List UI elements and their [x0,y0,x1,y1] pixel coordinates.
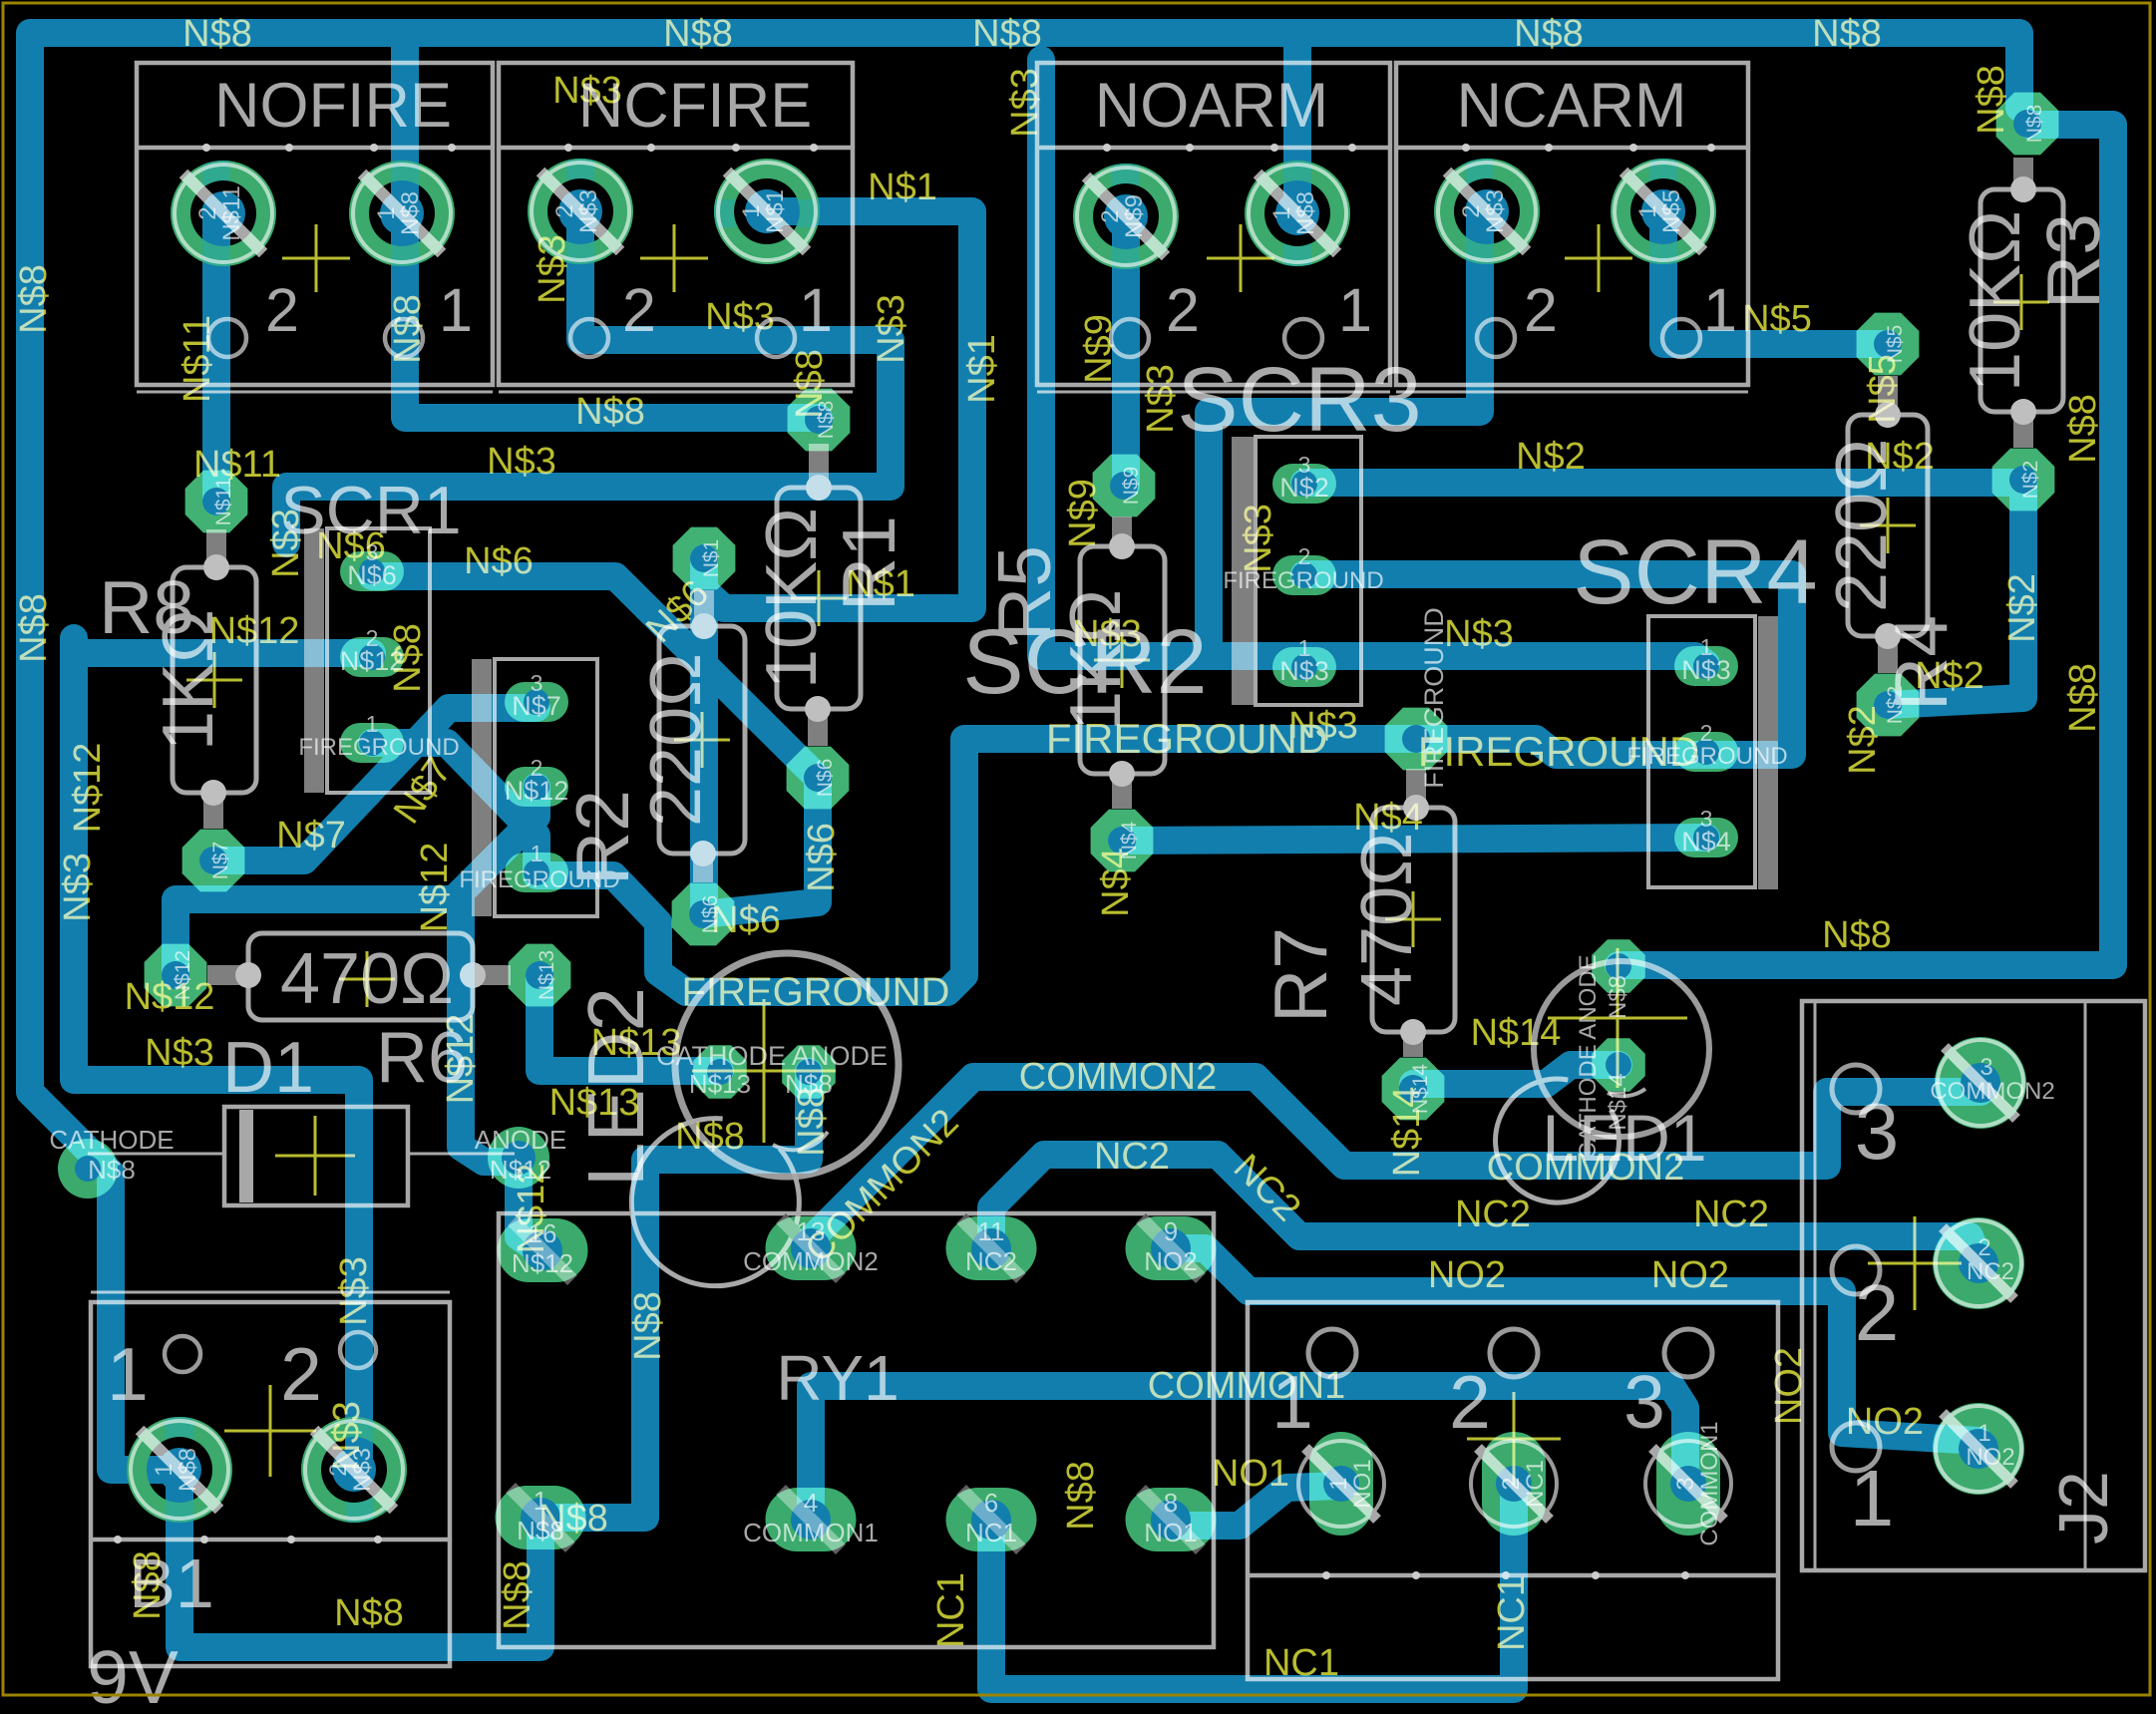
svg-text:3: 3 [1855,1087,1900,1176]
svg-text:N$11: N$11 [193,444,281,486]
svg-text:2: 2 [194,206,221,219]
svg-text:RY1: RY1 [776,1342,898,1414]
svg-text:1: 1 [439,276,473,344]
svg-text:N$8: N$8 [575,391,645,433]
svg-text:N$5: N$5 [1742,298,1812,340]
svg-text:2: 2 [1166,276,1200,344]
svg-text:N$9: N$9 [1120,467,1143,506]
svg-text:N$8: N$8 [397,191,424,235]
svg-text:N$8: N$8 [791,1087,833,1157]
svg-text:9V: 9V [87,1635,179,1714]
svg-text:N$3: N$3 [1681,655,1731,685]
svg-text:N$2: N$2 [1279,473,1329,503]
svg-text:COMMON1: COMMON1 [743,1518,879,1547]
svg-text:1: 1 [1325,1477,1352,1490]
svg-text:SCR4: SCR4 [1573,521,1817,623]
svg-text:NC2: NC2 [1094,1136,1170,1178]
svg-text:NO2: NO2 [1144,1246,1197,1276]
svg-text:ANODE: ANODE [1575,954,1602,1039]
svg-text:N$12: N$12 [440,1014,482,1105]
svg-text:N$3: N$3 [57,853,99,922]
svg-text:2: 2 [1498,1477,1525,1490]
svg-text:N$9: N$9 [1062,479,1104,548]
svg-text:N$2: N$2 [2019,461,2042,500]
svg-text:2: 2 [1097,209,1124,222]
svg-text:N$8: N$8 [2023,105,2046,144]
svg-text:SCR3: SCR3 [1177,349,1421,451]
svg-text:NO2: NO2 [1846,1401,1924,1443]
svg-text:N$1: N$1 [700,539,723,578]
svg-text:N$2: N$2 [1842,705,1884,775]
svg-text:N$9: N$9 [1121,194,1148,238]
svg-text:N$14: N$14 [1386,1087,1428,1178]
svg-text:NO2: NO2 [1768,1347,1810,1425]
svg-text:N$4: N$4 [1095,848,1137,917]
svg-text:N$8: N$8 [1812,13,1882,55]
svg-text:N$8: N$8 [539,1498,608,1540]
svg-text:NOFIRE: NOFIRE [214,71,452,141]
svg-text:N$8: N$8 [497,1560,539,1630]
svg-text:N$2: N$2 [1865,436,1935,478]
svg-text:2: 2 [1855,1268,1900,1357]
svg-text:N$8: N$8 [789,349,831,419]
svg-text:N$2: N$2 [1884,686,1907,725]
svg-text:N$12: N$12 [67,743,109,834]
svg-text:1: 1 [1338,276,1372,344]
svg-text:COMMON1: COMMON1 [1148,1365,1345,1407]
svg-text:N$12: N$12 [414,843,456,933]
svg-text:N$3: N$3 [1140,364,1182,434]
svg-text:N$3: N$3 [575,189,602,233]
svg-text:N$2: N$2 [1915,655,1984,697]
svg-text:2: 2 [1298,543,1311,569]
svg-text:N$8: N$8 [13,264,55,334]
svg-text:N$8: N$8 [127,1550,169,1620]
svg-text:N$8: N$8 [675,1116,745,1158]
svg-text:NC2: NC2 [1455,1194,1531,1235]
svg-text:N$3: N$3 [1444,613,1514,655]
svg-text:2: 2 [1449,1360,1491,1444]
svg-text:NC1: NC1 [930,1572,972,1648]
svg-text:1: 1 [1703,276,1737,344]
svg-text:FIREGROUND: FIREGROUND [298,734,459,761]
svg-text:N$8: N$8 [663,13,733,55]
svg-text:N$6: N$6 [711,899,781,941]
svg-text:N$3: N$3 [326,1401,368,1471]
svg-text:N$3: N$3 [532,234,573,304]
svg-text:NCARM: NCARM [1457,71,1687,141]
svg-text:FIREGROUND: FIREGROUND [682,970,950,1014]
svg-text:1: 1 [1634,204,1661,217]
svg-text:1: 1 [1977,1420,1990,1447]
svg-text:N$1: N$1 [846,563,915,605]
svg-text:NC1: NC1 [1263,1642,1339,1684]
svg-text:R7: R7 [1258,927,1342,1023]
svg-text:2: 2 [1458,204,1485,217]
svg-text:4: 4 [804,1488,818,1518]
svg-text:N$12: N$12 [505,776,569,806]
svg-text:3: 3 [1623,1360,1665,1444]
svg-text:N$3: N$3 [552,70,622,112]
svg-text:N$8: N$8 [1514,13,1584,55]
svg-text:N$6: N$6 [316,525,386,567]
svg-text:NC2: NC2 [1693,1194,1769,1235]
svg-text:N$13: N$13 [536,950,558,1000]
svg-text:N$3: N$3 [1238,504,1279,573]
svg-text:3: 3 [1672,1477,1699,1490]
svg-text:NO2: NO2 [1651,1254,1729,1296]
svg-text:N$3: N$3 [487,441,556,483]
svg-text:N$13: N$13 [591,1022,682,1064]
svg-text:1: 1 [373,206,400,219]
svg-text:NC2: NC2 [1967,1258,2014,1285]
svg-text:N$3: N$3 [705,296,775,338]
svg-text:N$8: N$8 [387,294,429,364]
svg-text:NO2: NO2 [1966,1444,2014,1471]
svg-text:N$1: N$1 [762,189,789,233]
svg-text:N$2: N$2 [2001,573,2043,643]
svg-text:NO1: NO1 [1212,1453,1289,1495]
svg-text:N$14: N$14 [1471,1012,1562,1054]
svg-text:N$1: N$1 [868,167,937,208]
svg-text:N$8: N$8 [2062,394,2104,464]
svg-text:N$3: N$3 [1279,656,1329,686]
svg-text:NO1: NO1 [1349,1459,1376,1508]
svg-text:N$5: N$5 [1862,354,1904,424]
svg-text:FIREGROUND: FIREGROUND [1046,715,1327,762]
svg-text:N$8: N$8 [627,1291,669,1361]
svg-text:3: 3 [1979,1054,1992,1081]
svg-text:COMMON2: COMMON2 [1019,1056,1217,1098]
svg-text:N$8: N$8 [1060,1461,1102,1531]
svg-text:1: 1 [1850,1454,1895,1543]
svg-text:1: 1 [1268,206,1295,219]
svg-text:N$8: N$8 [1292,191,1319,235]
svg-text:1: 1 [151,1463,178,1476]
svg-text:N$7: N$7 [512,691,561,721]
svg-text:N$13: N$13 [549,1082,640,1124]
svg-text:N$6: N$6 [464,540,534,582]
svg-text:N$6: N$6 [814,759,837,798]
svg-text:N$8: N$8 [387,623,429,693]
svg-text:N$8: N$8 [2062,663,2104,733]
svg-text:N$6: N$6 [801,823,843,892]
svg-text:COMMON2: COMMON2 [1930,1078,2054,1105]
svg-text:N$11: N$11 [177,315,218,403]
svg-text:R5: R5 [982,545,1066,641]
svg-text:N$8: N$8 [334,1592,404,1634]
svg-text:CATHODE ANODE: CATHODE ANODE [656,1041,888,1071]
svg-text:1: 1 [738,204,765,217]
svg-text:6: 6 [984,1488,998,1518]
svg-text:N$8: N$8 [1971,65,2012,135]
svg-text:N$2: N$2 [1516,436,1586,478]
svg-text:N$3: N$3 [1482,189,1509,233]
svg-text:N$3: N$3 [265,509,307,578]
svg-text:COMMON1: COMMON1 [1696,1421,1723,1545]
svg-text:2: 2 [280,1332,322,1416]
svg-text:1: 1 [531,841,543,866]
svg-text:FIREGROUND: FIREGROUND [1419,607,1449,789]
svg-text:NC2: NC2 [965,1246,1017,1276]
svg-text:2: 2 [551,204,578,217]
svg-text:2: 2 [1977,1234,1990,1261]
svg-text:N$9: N$9 [1078,314,1120,384]
svg-text:N$3: N$3 [1004,68,1046,138]
svg-text:N$12: N$12 [511,1164,552,1254]
svg-text:J2: J2 [2044,1471,2122,1544]
svg-text:N$5: N$5 [1658,189,1685,233]
svg-text:1: 1 [799,276,833,344]
svg-text:FIREGROUND: FIREGROUND [459,866,619,893]
svg-text:N$7: N$7 [209,842,232,880]
svg-text:N$3: N$3 [145,1032,214,1074]
svg-text:2: 2 [622,276,656,344]
svg-text:D1: D1 [222,1028,314,1108]
svg-text:R3: R3 [2031,213,2115,309]
svg-text:2: 2 [1524,276,1558,344]
svg-text:9: 9 [1164,1216,1178,1246]
svg-text:11: 11 [978,1216,1005,1246]
svg-text:2: 2 [265,276,299,344]
svg-text:NC1: NC1 [965,1518,1017,1547]
svg-text:N$11: N$11 [218,185,245,241]
svg-text:N$7: N$7 [276,815,346,857]
svg-text:N$13: N$13 [689,1069,751,1099]
svg-text:N$3: N$3 [871,294,912,364]
svg-text:CATHODE: CATHODE [1575,1044,1602,1160]
svg-text:N$1: N$1 [961,334,1003,404]
svg-text:N$4: N$4 [1353,797,1423,839]
svg-text:N$3: N$3 [1072,613,1142,655]
svg-text:N$8: N$8 [182,13,252,55]
svg-text:N$8: N$8 [1822,914,1892,956]
svg-text:NC1: NC1 [1522,1460,1549,1508]
svg-text:1: 1 [107,1332,149,1416]
svg-text:N$8: N$8 [88,1155,136,1185]
svg-text:NOARM: NOARM [1095,71,1329,141]
svg-text:N$8: N$8 [175,1448,201,1492]
svg-text:N$4: N$4 [1681,827,1731,857]
svg-text:CATHODE: CATHODE [49,1125,174,1155]
svg-text:N$8: N$8 [13,593,55,663]
svg-text:N$12: N$12 [209,610,300,652]
svg-text:FIREGROUND: FIREGROUND [1418,728,1699,775]
svg-text:NO1: NO1 [1144,1518,1197,1547]
svg-text:N$12: N$12 [125,976,215,1018]
svg-text:8: 8 [1164,1488,1178,1518]
svg-text:ANODE: ANODE [475,1125,566,1155]
svg-text:N$3: N$3 [333,1256,375,1326]
svg-text:COMMON2: COMMON2 [1487,1147,1684,1189]
svg-text:NC1: NC1 [1491,1575,1533,1651]
svg-text:NO2: NO2 [1428,1254,1506,1296]
svg-text:N$8: N$8 [972,13,1042,55]
